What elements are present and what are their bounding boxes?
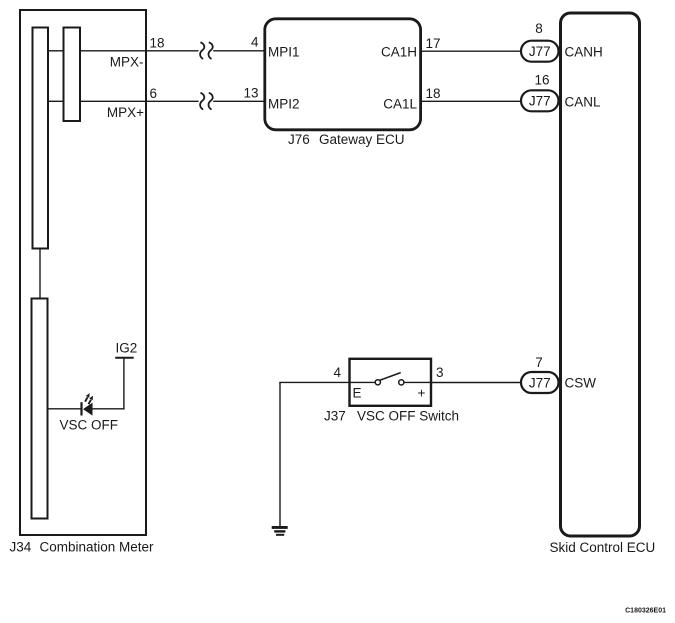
wire MPX+ segment bar C to break (80, 100, 199, 102)
svg-text:CA1L: CA1L (383, 96, 417, 111)
svg-text:13: 13 (243, 86, 258, 101)
ground symbol (272, 526, 288, 529)
svg-text:IG2: IG2 (116, 340, 138, 355)
wire switch left to node (279, 381, 349, 383)
svg-text:Combination Meter: Combination Meter (40, 540, 155, 555)
svg-text:4: 4 (251, 35, 259, 50)
gateway ECU box J76 (265, 19, 421, 130)
svg-text:C180326E01: C180326E01 (625, 608, 666, 615)
wire node down to ground (279, 382, 281, 526)
wire MPX- segment break to gateway (213, 50, 264, 52)
svg-text:+: + (418, 385, 426, 400)
svg-text:4: 4 (333, 365, 341, 380)
svg-text:VSC OFF Switch: VSC OFF Switch (357, 408, 459, 423)
connector bar B (meter, lower tall) (32, 299, 48, 519)
connector bar A (meter, upper tall) (33, 28, 49, 249)
harness break mark on MPX+ wire (left) (200, 93, 204, 109)
connector J77 oval (CANL) (521, 90, 559, 111)
svg-text:J77: J77 (529, 375, 551, 390)
wire MPX- segment bar C to break (80, 50, 199, 52)
wire MPX+ segment break to gateway (213, 100, 264, 102)
switch contact circle right (399, 380, 404, 385)
svg-text:CA1H: CA1H (381, 44, 417, 59)
wire vertical link bar A to bar B (39, 249, 41, 299)
wire MPX+ segment bar A to bar C (48, 100, 64, 102)
svg-text:MPX-: MPX- (110, 55, 144, 70)
skid control ECU box (561, 13, 640, 536)
switch wire inside left (349, 381, 375, 383)
wire MPX- segment bar A to bar C (48, 50, 64, 52)
svg-text:J76: J76 (288, 132, 310, 147)
svg-text:CANL: CANL (565, 95, 602, 110)
svg-text:CSW: CSW (565, 376, 597, 391)
wire CA1H gateway to J77 (422, 50, 523, 52)
svg-text:J34: J34 (10, 540, 32, 555)
svg-text:7: 7 (535, 355, 543, 370)
svg-text:8: 8 (535, 21, 543, 36)
switch blade (380, 373, 401, 381)
svg-text:Skid Control ECU: Skid Control ECU (550, 540, 656, 555)
svg-text:Gateway ECU: Gateway ECU (319, 132, 405, 147)
wire meter to LED (48, 408, 81, 410)
LED triangle (indicator lamp VSC OFF) (83, 403, 93, 416)
svg-text:E: E (353, 386, 362, 401)
VSC OFF switch box J37 (350, 359, 432, 406)
switch contact circle left (375, 380, 380, 385)
combination meter box J34 (20, 10, 146, 535)
svg-text:J37: J37 (324, 408, 346, 423)
svg-text:MPI2: MPI2 (268, 96, 300, 111)
connector J77 oval (CSW) (521, 372, 559, 393)
svg-text:6: 6 (150, 86, 158, 101)
harness break mark on MPX- wire (left) (200, 43, 204, 59)
svg-text:18: 18 (426, 86, 441, 101)
svg-text:J77: J77 (529, 94, 551, 109)
connector bar C (meter, upper right) (64, 28, 81, 122)
LED cathode bar (80, 402, 82, 415)
IG2 terminal bar (115, 357, 134, 359)
svg-text:J77: J77 (529, 44, 551, 59)
svg-text:CANH: CANH (565, 45, 603, 60)
connector J77 oval (CANH) (521, 41, 559, 62)
LED light arrow 2 (89, 400, 92, 404)
LED light arrow 1 (85, 397, 88, 401)
switch wire inside right (404, 381, 432, 383)
svg-text:18: 18 (150, 36, 165, 51)
svg-text:MPX+: MPX+ (107, 105, 144, 120)
harness break mark on MPX- wire (right) (208, 43, 212, 59)
wire switch to J77 CSW (432, 382, 523, 384)
svg-text:17: 17 (426, 36, 441, 51)
svg-text:16: 16 (534, 72, 549, 87)
svg-text:MPI1: MPI1 (268, 44, 300, 59)
harness break mark on MPX+ wire (right) (208, 93, 212, 109)
wire vertical to IG2 (123, 358, 125, 409)
wire LED to IG2 corner (93, 408, 125, 410)
svg-text:3: 3 (436, 365, 444, 380)
svg-text:VSC OFF: VSC OFF (60, 418, 119, 433)
wire CA1L gateway to J77 (422, 100, 523, 102)
